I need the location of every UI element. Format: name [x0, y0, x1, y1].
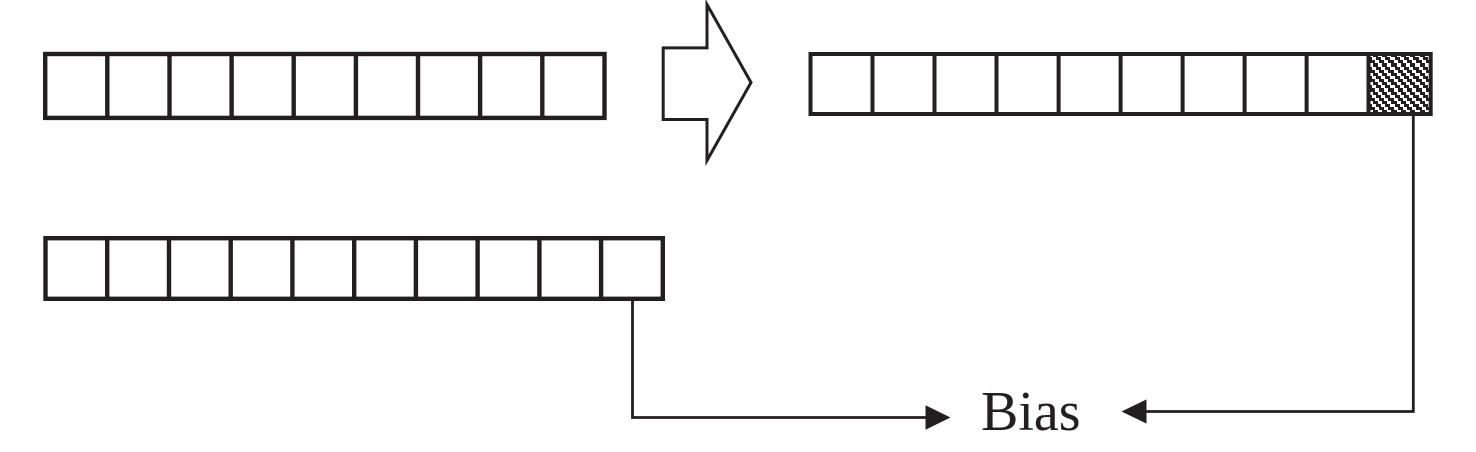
svg-text:Bias: Bias: [981, 381, 1081, 443]
